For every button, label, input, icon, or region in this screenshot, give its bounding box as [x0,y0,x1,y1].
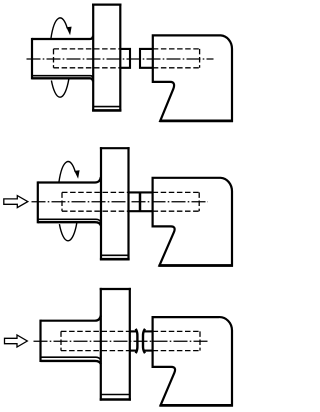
hidden bore in clamp bottom (dashed) [153,210,200,212]
flange disc right edge [127,147,129,260]
rotation arrowhead [66,27,71,36]
clamp bottom edge (thick) [159,264,233,267]
bore hidden left end (dashed vertical) [53,49,55,68]
shaft body bottom outer edge with fillet [38,222,101,225]
flange disc top edge [100,147,130,149]
flange disc right edge [129,288,131,401]
hidden bore in clamp bottom (dashed) [153,350,200,352]
flange disc inner bottom double line [93,106,120,108]
hidden bore in clamp bottom (dashed) [153,67,200,69]
shaft body bottom outer edge with fillet [41,361,101,364]
contact interface line [139,192,142,211]
weld flash left bead [136,329,138,353]
node centerline-2 (axis, dash-dot) [32,201,209,203]
hidden bore in clamp top (dashed) [153,191,200,193]
stub bottom edge (disc to clamp) [129,210,153,212]
flange disc bottom edge [92,109,121,112]
flange disc left edge [92,4,94,112]
bore hidden outline (dashed) top [62,191,129,193]
bore hidden left end (dashed vertical) [60,331,62,350]
stub right segment (flash to clamp) [144,330,152,332]
rotation ellipse top arc [51,18,67,39]
stub top edge (disc to clamp) [129,191,153,193]
clamp bottom edge (thick) [160,404,233,407]
flange disc top edge [100,288,131,290]
hidden bore right end (dashed vertical) [199,331,201,350]
shaft body top edge with fillet into disc [32,36,93,39]
hidden bore right end (dashed vertical) [199,49,201,68]
force arrow (outline) [4,196,28,208]
rotation ellipse bottom arc [59,223,76,241]
node centerline-1 (axis of rotation, dash-dot) [27,58,214,60]
force arrow (outline) [5,335,28,347]
flange disc top edge [92,3,121,5]
shaft body bottom inner double line [41,357,101,360]
shaft body bottom inner double line [38,219,101,222]
shaft body (left collet sleeve) left edge [31,38,33,80]
hidden bore right end (dashed vertical) [198,192,200,211]
workpiece stub right (held in clamp) [140,49,153,68]
flange disc inner bottom double line [101,394,130,396]
bore hidden outline (dashed) bottom [54,67,121,69]
flange disc right edge [119,4,121,112]
clamp body outline [153,317,232,405]
flange disc bottom edge [100,398,131,401]
shaft body bottom inner double line [32,76,93,79]
shaft body top edge with fillet [41,316,101,321]
workpiece stub left (protruding from disc) [120,49,130,68]
shaft body top edge with fillet [38,177,101,183]
bore hidden outline (dashed) top [61,330,130,332]
stub left segment (disc to flash) [130,330,137,332]
shaft body bottom outer edge with fillet [32,78,93,81]
clamp bottom edge (thick) [160,120,234,123]
shaft body left edge [37,181,39,223]
flange disc left edge [100,288,102,401]
bore hidden left end (dashed vertical) [61,192,63,211]
rotation ellipse bottom arc [51,79,68,97]
shaft body left edge [39,320,41,362]
weld flash right bead [143,329,145,353]
bore hidden outline (dashed) in shaft+disc, top [54,48,121,50]
flange disc inner bottom double line [101,254,129,256]
flange disc bottom edge [100,258,130,261]
clamp body outline [153,35,232,121]
node centerline-3 (axis, dash-dot) [34,340,208,342]
hidden bore in clamp top (dashed) [153,330,200,332]
rotation ellipse top arc [59,162,75,183]
rotation arrowhead [74,170,79,179]
clamp body outline [153,178,232,266]
flange disc left edge [100,147,102,260]
hidden bore in clamp top (dashed) [153,48,200,50]
bore hidden outline (dashed) bottom [62,210,129,212]
bore hidden outline (dashed) bottom [61,350,130,352]
